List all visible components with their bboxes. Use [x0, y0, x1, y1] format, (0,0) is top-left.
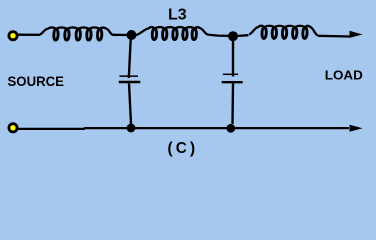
svg-text:LOAD: LOAD — [325, 68, 363, 83]
capacitor C2: bottom plate — [119, 81, 141, 84]
capacitor C2 (left shunt): top lead — [129, 37, 131, 78]
svg-text:SOURCE: SOURCE — [8, 73, 65, 89]
node: junction dot bottom 1 — [127, 124, 136, 133]
capacitor C4 (right shunt): top lead — [232, 38, 234, 77]
capacitor C4: bottom plate — [222, 81, 243, 83]
node: junction dot top 2 — [228, 31, 238, 41]
wire: L5 to load arrow — [318, 35, 350, 38]
arrowhead: bottom rail (ground return) — [350, 125, 363, 132]
terminal: SOURCE top — [9, 32, 17, 40]
wire: L1 to node 1 — [113, 34, 128, 37]
wire: L3 to node 2 — [208, 35, 229, 36]
inductor L5 (right series coil) — [249, 26, 318, 39]
wire: source top terminal to L1 — [18, 34, 39, 36]
capacitor C4: bottom lead — [231, 83, 234, 124]
inductor L3 (middle series coil) — [136, 27, 208, 40]
wire: bottom rail — [18, 127, 349, 130]
node: junction dot top 1 — [127, 30, 137, 40]
svg-text:(C): (C) — [168, 140, 199, 157]
arrowhead: to LOAD (top) — [350, 31, 363, 38]
svg-text:L3: L3 — [168, 7, 187, 24]
node: junction dot bottom 2 — [226, 124, 235, 133]
capacitor C2: top plate — [119, 75, 138, 77]
capacitor C4: top plate — [223, 73, 238, 75]
capacitor C2: bottom lead — [129, 83, 131, 124]
wire: node 2 to L5 — [238, 34, 249, 37]
terminal: SOURCE bottom — [9, 124, 17, 132]
inductor L1 (left series coil) — [39, 27, 113, 40]
